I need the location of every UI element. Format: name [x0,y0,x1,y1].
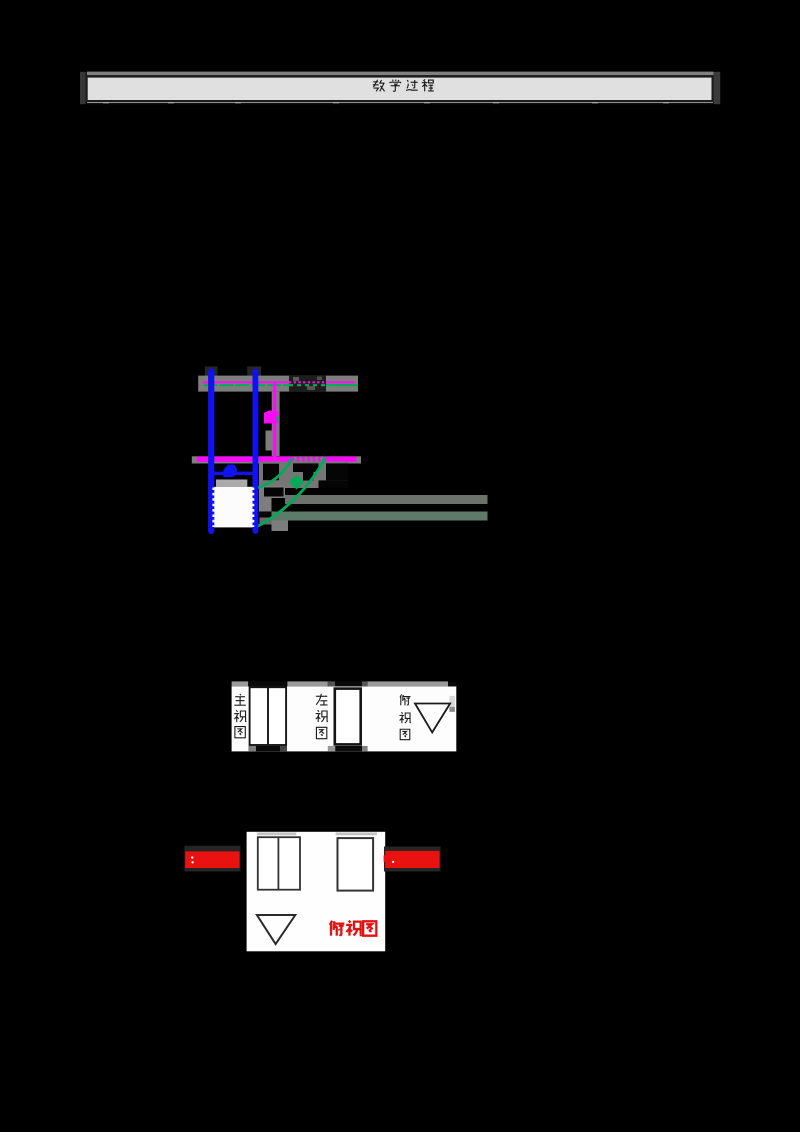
top magenta horizontal line [203,381,355,383]
blue blob arrow [223,465,237,478]
gray strip behind magenta vertical [272,392,280,456]
white strip [232,686,457,751]
middle gray band [192,456,361,463]
left red block white dots [191,856,193,858]
dark halo above blue line 1 [205,366,218,375]
gray patch left of lower magenta vertical [266,431,273,451]
pattern left gray under [259,486,285,498]
top edge segments [232,681,249,686]
label 俯视图 [399,694,410,739]
header table: right dark strip [714,72,721,104]
green arc small [258,458,292,488]
triangle [257,915,295,944]
main-view divider [267,687,269,745]
header title 教学过程 [373,80,434,92]
gray patch left of band C end [260,518,272,525]
double rectangle divider [277,837,279,890]
pattern zone gray block (right of box) [259,462,348,489]
gray band C (long greenish) [272,512,488,521]
left red block halo [184,846,240,872]
gray patch below band C [272,521,289,532]
white box [212,487,254,528]
pattern black hole 1 [263,464,279,481]
header bottom broken line [87,103,713,105]
blue vertical line 2 [252,372,258,532]
bottom edge segments [248,746,256,751]
blue vertical line 1 [208,372,214,532]
magenta blob [264,410,279,423]
dark zone in top band [289,376,326,392]
dark halo above blue line 2 [247,366,261,375]
right edge gray blocks [449,696,455,707]
red label 俯视图 [330,921,377,936]
pattern black hole 2 (T top) [293,463,319,472]
middle magenta horizontal line [197,457,357,462]
gray band B (long) [285,495,488,504]
gray band above white box [216,480,247,487]
main-view double rectangle [250,687,287,745]
right red block halo [384,847,441,872]
pattern black hole 5 [319,480,349,488]
header bottom light strip [87,102,713,103]
green mark on blob [277,417,279,422]
right red block white dot [392,861,394,863]
top-view triangle [415,704,450,733]
top green dashed line [204,384,358,386]
left red block [185,851,239,868]
green diamond [289,475,304,490]
pattern left gray low [259,498,272,512]
single rectangle [338,838,374,891]
white sheet [247,832,386,952]
double rectangle [258,837,300,890]
pattern left black hole [264,488,284,497]
label 左视图 [316,694,328,739]
green arc large [258,458,326,527]
top gray band [198,376,358,392]
white dashes on box left edge [212,488,214,528]
header table: left dark strip [80,72,86,104]
sheet top gray lines [257,832,296,835]
right red block tab [384,855,387,862]
label 主视图 [234,694,246,738]
pattern black hole 4 [326,463,348,480]
magenta vertical line [273,382,276,457]
left-view rectangle [335,689,361,745]
white dashes on box right edge [252,488,254,528]
blue horizontal connector [211,472,256,475]
pattern black hole 3 (T stem) [303,472,314,481]
right red block [385,851,439,868]
header cell box [87,77,713,101]
header table: top gray band [87,72,714,76]
